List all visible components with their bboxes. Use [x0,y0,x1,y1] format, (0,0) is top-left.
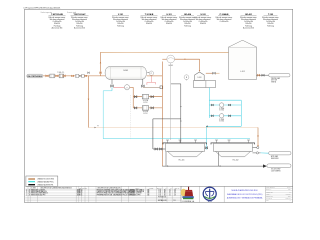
svg-text:1/3: 1/3 [174,193,176,195]
svg-text:1/3: 1/3 [174,194,176,196]
svg-text:LT: LT [151,73,153,75]
svg-text:C=100 m3/h: C=100 m3/h [165,21,174,23]
svg-text:P=6 barg: P=6 barg [54,25,61,27]
svg-text:REV: REV [266,200,269,202]
svg-text:C=100 m3/h: C=100 m3/h [145,21,154,23]
svg-text:1:50: 1:50 [159,194,162,196]
svg-text:S-102B: S-102B [143,111,148,113]
svg-text:C:\\Proyectos\\PFD-RSU\\Rev3.d: C:\\Proyectos\\PFD-RSU\\Rev3.dwg 04/06/2… [23,6,60,9]
svg-text:P=6 barg: P=6 barg [267,25,274,27]
svg-text:04/06/21: 04/06/21 [286,194,291,196]
svg-text:DN=150: DN=150 [166,23,172,25]
svg-text:C=100 m3/h: C=100 m3/h [183,21,192,23]
svg-text:JMG: JMG [288,196,291,198]
svg-text:21/01/21: 21/01/21 [130,194,135,196]
svg-text:P=6 barg: P=6 barg [117,25,124,27]
svg-text:DN=150: DN=150 [54,23,60,25]
svg-text:C=100 m3/h: C=100 m3/h [199,21,208,23]
svg-text:SOLIDS NEW: SOLIDS NEW [271,169,281,171]
svg-text:RC-101: RC-101 [179,160,185,162]
svg-text:NUEVA PLANTA PIROLISIS RSU: NUEVA PLANTA PIROLISIS RSU [232,189,259,192]
svg-text:T-SIL-2.1: T-SIL-2.1 [57,72,64,74]
svg-text:DN=150: DN=150 [146,23,152,25]
svg-text:P=6 barg: P=6 barg [76,25,83,27]
svg-text:C=100 m3/h: C=100 m3/h [116,21,125,23]
svg-text:C=100 m3/h: C=100 m3/h [244,21,253,23]
svg-text:L-101: L-101 [240,71,245,73]
svg-text:DN=150: DN=150 [118,23,124,25]
svg-text:1:50: 1:50 [159,193,162,195]
svg-text:CUSTOMERS: CUSTOMERS [271,171,281,173]
svg-text:DN=150: DN=150 [200,23,206,25]
svg-text:02/03/21: 02/03/21 [130,193,135,195]
svg-text:C=100 m3/h: C=100 m3/h [75,21,84,23]
svg-text:01: 01 [169,193,171,195]
svg-text:1/3: 1/3 [174,200,176,202]
svg-text:01: 01 [169,194,171,196]
svg-text:ALIMENTACION Y SEPARACION PRIM: ALIMENTACION Y SEPARACION PRIMARIA [227,197,263,200]
svg-text:REMOVER: REMOVER [271,158,280,160]
svg-text:S-103: S-103 [197,77,201,79]
svg-text:RC-102: RC-102 [233,160,239,162]
svg-text:DN=150: DN=150 [268,23,274,25]
svg-text:UNIT DE: UNIT DE [271,80,277,82]
svg-text:P=6 barg: P=6 barg [245,25,252,27]
svg-text:DIAGRAMA DE FLUJO DE PROCESO (: DIAGRAMA DE FLUJO DE PROCESO (PFD) [227,193,263,196]
svg-text:DN=150: DN=150 [77,23,83,25]
svg-text:PY: PY [97,126,99,128]
svg-text:21-04: 21-04 [287,187,291,189]
svg-text:PFD-001: PFD-001 [285,198,290,200]
svg-text:C=100 m3/h: C=100 m3/h [220,21,229,23]
svg-text:S-101: S-101 [123,70,128,72]
svg-text:1:50: 1:50 [288,189,291,191]
svg-text:P=6 barg: P=6 barg [184,25,191,27]
svg-text:DN=150: DN=150 [185,23,191,25]
svg-text:N. REV: N. REV [31,188,36,190]
svg-text:C=100 m3/h: C=100 m3/h [53,21,62,23]
svg-text:C=100 m3/h: C=100 m3/h [266,21,275,23]
svg-text:DN=150: DN=150 [246,23,252,25]
svg-text:PROYECTO N.: PROYECTO N. [266,187,275,189]
